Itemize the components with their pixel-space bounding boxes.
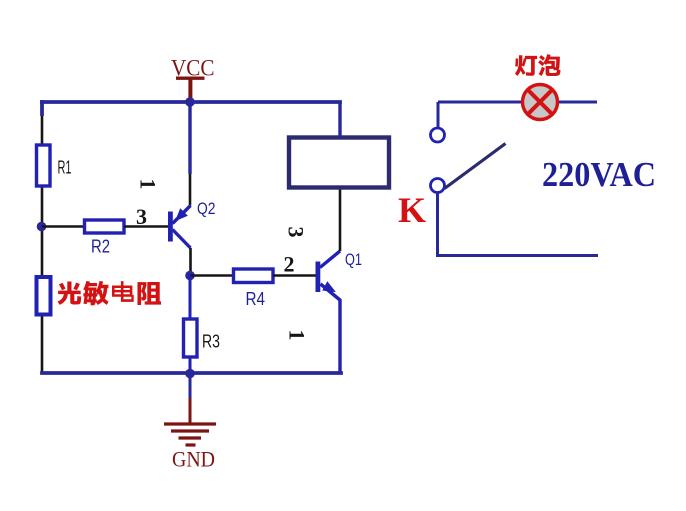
node bottom rail / R3 / ground junction (185, 369, 195, 379)
relay coil K (289, 138, 389, 188)
switch lower contact (431, 179, 445, 193)
svg-text:VCC: VCC (171, 56, 215, 81)
svg-text:R4: R4 (246, 289, 266, 309)
wire VCC top rail (42, 100, 340, 104)
resistor R4 (234, 269, 274, 283)
node Q2 collector / R4 / R3 junction (185, 271, 195, 281)
svg-text:2: 2 (284, 252, 295, 277)
wire R3 to bottom rail (189, 357, 192, 373)
svg-text:220VAC: 220VAC (542, 155, 656, 194)
wire R2 to Q2 base (124, 225, 168, 228)
wire left vertical rail (R1/photoresistor branch) (41, 103, 44, 373)
resistor R1 (37, 145, 51, 186)
wire lamp to mains (right) (559, 101, 597, 104)
wire top rail down to relay coil (338, 102, 341, 137)
wire node to R4 (190, 274, 233, 277)
wire bottom mains lead (436, 254, 598, 257)
svg-text:Q1: Q1 (345, 250, 362, 269)
node left junction (R1/R2/photoresistor) (37, 222, 47, 232)
transistor Q2 (PNP) (168, 206, 191, 249)
node VCC junction (185, 97, 195, 107)
wire bottom rail (42, 371, 341, 375)
wire switch to lamp (438, 101, 521, 104)
svg-text:R2: R2 (91, 237, 110, 257)
wire node to ground (navy part) (189, 375, 192, 398)
svg-text:Q2: Q2 (197, 199, 216, 218)
svg-text:GND: GND (172, 447, 215, 472)
label 灯泡 (lamp) (515, 54, 561, 76)
wire VCC junction down to Q2 emitter (navy part) (188, 102, 191, 174)
transistor Q1 (NPN) (316, 251, 341, 300)
wire R4 to Q1 base (273, 274, 316, 277)
svg-text:R3: R3 (202, 332, 220, 352)
svg-text:1: 1 (285, 330, 310, 341)
wire lower contact down (436, 193, 439, 255)
label 光敏电阻 (photoresistor) (58, 281, 162, 305)
svg-text:K: K (398, 190, 426, 230)
svg-text:1: 1 (136, 179, 161, 190)
wire Q2 collector down to node (189, 248, 192, 275)
resistor R2 (85, 220, 125, 233)
svg-text:R1: R1 (58, 158, 72, 178)
wire junction to R2 (42, 225, 84, 228)
wire to Q2 emitter (black part) (189, 174, 192, 206)
switch blade K (445, 144, 506, 189)
resistor R3 (184, 319, 198, 357)
wire to ground (dark red part) (189, 398, 192, 423)
ground symbol (164, 424, 216, 445)
svg-text:3: 3 (284, 227, 309, 238)
switch upper contact (431, 128, 445, 142)
svg-text:3: 3 (136, 204, 147, 229)
power VCC symbol (176, 78, 205, 101)
wire node down to R3 (189, 276, 192, 320)
wire Q1 emitter down to bottom rail (338, 299, 341, 373)
photoresistor (light dependent resistor) (37, 277, 51, 315)
lamp 灯泡 (523, 85, 558, 120)
wire Q1 collector up to relay (339, 187, 342, 251)
wire top-left corner elbow (40, 102, 44, 114)
wire lamp branch down to upper contact (437, 102, 440, 128)
